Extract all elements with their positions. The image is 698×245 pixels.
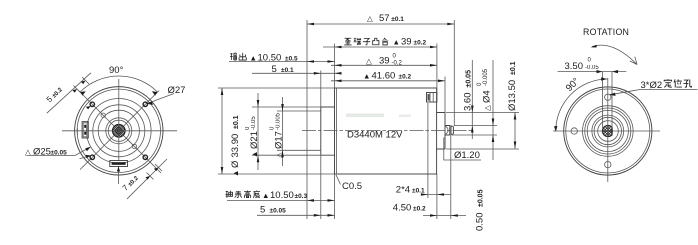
rear shaft washer bbox=[450, 125, 451, 135]
screw hole NW bbox=[90, 102, 94, 106]
90deg arc dimension bbox=[556, 79, 608, 131]
3.50 dimension line bbox=[558, 71, 627, 73]
dia33.90 dim line bbox=[221, 88, 223, 174]
svg-text:Ø27: Ø27 bbox=[168, 85, 186, 96]
svg-text:3*Ø2: 3*Ø2 bbox=[641, 80, 663, 91]
rear cover ring r13.7 bbox=[594, 117, 621, 144]
label dia1.20 with leader bbox=[444, 138, 481, 161]
front boss dia21 bbox=[321, 107, 335, 155]
diagonal centerline NE bbox=[124, 91, 160, 127]
extension line terminal face bbox=[436, 44, 438, 220]
screw hole SE bbox=[143, 155, 147, 159]
dim 5 +-0.1 line bbox=[252, 72, 341, 74]
diagonal centerline SW bbox=[80, 136, 114, 170]
hub ring inner bbox=[108, 120, 129, 141]
label 0.50 rotated bbox=[475, 189, 486, 231]
svg-text:90°: 90° bbox=[109, 65, 124, 76]
leader dia27 bbox=[148, 94, 174, 104]
dim 7 tick lines bbox=[147, 164, 163, 180]
rear cover ring r25 bbox=[583, 106, 634, 157]
front endbell seam bbox=[336, 88, 338, 174]
centerline tick left bbox=[76, 128, 78, 135]
rear vertical centerline bbox=[607, 78, 609, 182]
brush tab bottom bbox=[110, 161, 128, 167]
rear right extension lines bbox=[446, 113, 519, 150]
dim 5 +-0.05 line bbox=[257, 214, 335, 216]
rear shaft tip bbox=[451, 126, 453, 134]
dim to-terminal-boss 39 line bbox=[323, 46, 437, 48]
leader to SW hole bbox=[80, 156, 90, 159]
svg-text:-0.05: -0.05 bbox=[251, 116, 257, 130]
arrow at NW screw hole bbox=[86, 106, 91, 109]
rear cover ring r15.9 bbox=[592, 115, 624, 147]
svg-text:D3440M 12V: D3440M 12V bbox=[347, 130, 403, 141]
extension line terminal left bbox=[427, 103, 429, 198]
dia33.90 extension lines bbox=[218, 88, 335, 174]
rear bearing boss bbox=[437, 113, 445, 150]
rear shaft bbox=[445, 126, 450, 136]
dim 5 +-0.2 line bbox=[47, 73, 91, 113]
label C0.5 with leader bbox=[336, 175, 341, 185]
dim 2*4 line bbox=[423, 194, 451, 196]
dim 5 tick lines bbox=[74, 77, 90, 93]
dim 4.50 line bbox=[423, 215, 466, 217]
extension line body front face up/down bbox=[334, 44, 336, 220]
dim 57 line bbox=[307, 23, 454, 25]
svg-text:△Ø17: △Ø17 bbox=[274, 131, 285, 158]
svg-text:▲Ø21: ▲Ø21 bbox=[249, 131, 260, 158]
circle dia25 bbox=[87, 99, 152, 164]
hub ring outer bbox=[106, 118, 132, 144]
rear shaft root cone bbox=[445, 126, 448, 136]
rear cover ring r20.6 bbox=[587, 110, 628, 151]
dim 39 -0.2 line bbox=[331, 64, 437, 66]
svg-text:-0.005: -0.005 bbox=[276, 112, 282, 130]
extension line boss face up/down bbox=[320, 71, 322, 220]
extension line front shaft tip bbox=[306, 20, 308, 219]
diagonal centerline SE bbox=[124, 136, 162, 174]
dim 3.60 line bbox=[471, 60, 473, 139]
extension line rear shaft tip bbox=[453, 20, 455, 126]
label 3*d2 locating holes bbox=[610, 90, 698, 95]
knurled shaft bbox=[113, 125, 126, 138]
terminal block bbox=[427, 93, 437, 103]
screw hole NE bbox=[143, 102, 147, 106]
svg-text:-0.05: -0.05 bbox=[585, 65, 599, 71]
vertical centerline bbox=[118, 79, 120, 161]
dim bearing height 10.50 line bbox=[227, 199, 335, 201]
dim 7 +-0.2 line bbox=[127, 159, 167, 199]
rear bearing ring bbox=[598, 121, 619, 142]
svg-text:ROTATION: ROTATION bbox=[583, 27, 629, 37]
horizontal centerline bbox=[62, 130, 177, 132]
leader dia25 bbox=[27, 148, 89, 156]
rear face inner rim circle bbox=[566, 89, 650, 173]
motor body outline bbox=[335, 88, 437, 174]
front face outer circle (motor body) bbox=[75, 87, 163, 175]
shaft centerline bbox=[302, 129, 472, 131]
diagonal centerline NW bbox=[79, 91, 115, 127]
label 90deg rotated bbox=[564, 76, 582, 94]
extension line washer bbox=[450, 135, 452, 219]
dia21 extension lines bbox=[252, 107, 321, 155]
3.50 extension lines bbox=[603, 72, 613, 128]
small hole SE on dia17 bbox=[132, 144, 136, 148]
dim dia4 line bbox=[492, 60, 494, 160]
rear shaft with flat bbox=[602, 126, 612, 137]
svg-text:C0.5: C0.5 bbox=[342, 181, 362, 192]
dim dia13.50 line bbox=[514, 113, 516, 149]
front face inner rim circle bbox=[77, 89, 160, 172]
svg-text:-0.005: -0.005 bbox=[483, 68, 489, 86]
locating hole left bbox=[571, 128, 577, 134]
svg-text:3.50: 3.50 bbox=[565, 61, 584, 72]
dia17 dim line bbox=[282, 97, 284, 166]
90 deg dimension arc bbox=[80, 76, 157, 92]
small hole NW on dia17 bbox=[101, 113, 105, 117]
dia17 extension lines bbox=[277, 111, 321, 150]
leader arrow to bottom tab bbox=[118, 167, 120, 184]
locating hole bottom bbox=[605, 161, 611, 167]
svg-text:△Ø4: △Ø4 bbox=[482, 90, 493, 111]
label 7 +-0.2 bbox=[121, 173, 141, 193]
rear horizontal centerline bbox=[553, 130, 660, 132]
label 5 +-0.2 bbox=[45, 85, 65, 105]
dim 5 arrows bbox=[72, 89, 77, 93]
circle dia17 bbox=[98, 110, 139, 151]
rear face outer circle bbox=[564, 87, 652, 175]
brush tab left bbox=[82, 122, 88, 138]
dim output 10.50 line bbox=[229, 61, 335, 63]
dim 41.60 line bbox=[331, 80, 445, 82]
extension line rear boss face bbox=[444, 77, 446, 113]
circle dia21 boss bbox=[93, 105, 145, 157]
dim 7 arrows bbox=[145, 176, 150, 180]
svg-text:-0.2: -0.2 bbox=[392, 61, 403, 67]
svg-text:Ø1.20: Ø1.20 bbox=[454, 150, 480, 161]
screw hole SW bbox=[90, 155, 94, 159]
rear cover ring r23 bbox=[585, 108, 631, 154]
dia21 dim line bbox=[257, 93, 259, 170]
rotation direction arc bbox=[592, 45, 637, 64]
locating hole top bbox=[605, 94, 611, 100]
